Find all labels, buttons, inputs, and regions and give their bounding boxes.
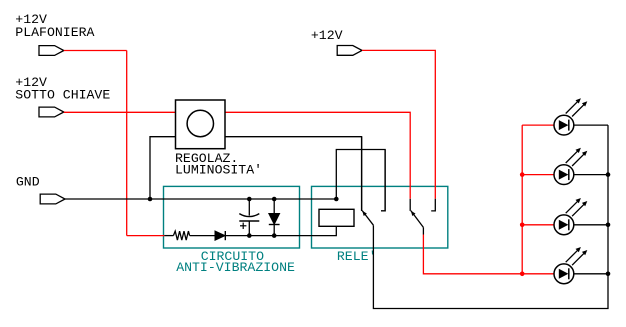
svg-text:+12V: +12V bbox=[311, 28, 343, 43]
junction D2 bottom bbox=[272, 233, 277, 238]
wire pot left lead to GND bbox=[150, 137, 176, 199]
box RELE' bbox=[312, 186, 448, 248]
connector J4 +12V top bbox=[337, 46, 362, 56]
wire LED3 cathode stub bbox=[574, 224, 608, 226]
wire red switch2 output to LED bus bbox=[423, 235, 522, 274]
wire LED4 cathode stub bbox=[574, 273, 608, 275]
capacitor C1 bbox=[239, 199, 259, 236]
potentiometer REGOLAZ. LUMINOSITA' bbox=[176, 100, 226, 149]
diode D1 series bbox=[215, 231, 225, 240]
wire red LED anode bus bbox=[521, 125, 523, 274]
box CIRCUITO ANTI-VIBRAZIONE bbox=[164, 186, 300, 248]
svg-text:LUMINOSITA': LUMINOSITA' bbox=[175, 163, 262, 178]
junction black LED3 bbox=[606, 223, 611, 228]
connector J2 +12V SOTTO CHIAVE bbox=[39, 107, 64, 117]
wire LED2 cathode stub bbox=[574, 174, 608, 176]
junction red LED4 bbox=[520, 272, 525, 277]
wire red pot box to switch2 left bbox=[225, 112, 410, 199]
wire R1 to D1 bbox=[190, 235, 215, 237]
switch S2 bbox=[362, 137, 386, 226]
connector J3 GND bbox=[40, 194, 65, 204]
wire pot right lead to switch1 left bbox=[225, 137, 362, 211]
wire red to anti-vibration input bbox=[127, 235, 165, 237]
LED D6 bbox=[554, 247, 587, 284]
svg-text:GND: GND bbox=[16, 174, 40, 189]
junction black LED2 bbox=[606, 172, 611, 177]
wire red J4 to switch2 right bbox=[362, 50, 435, 198]
wire red J1 to corner bbox=[64, 50, 127, 52]
wire LED1 cathode stub bbox=[574, 124, 608, 126]
relay coil K1 bbox=[319, 209, 354, 226]
junction C1 bottom bbox=[247, 233, 252, 238]
wire diode1 to coil bottom bbox=[226, 226, 336, 235]
LED D3 bbox=[554, 98, 587, 135]
LED D5 bbox=[554, 198, 587, 235]
LED D4 bbox=[554, 148, 587, 185]
junction red LED2 bbox=[520, 172, 525, 177]
diode D2 parallel bbox=[269, 199, 280, 236]
wire switch1 output to LED cathode bus bbox=[373, 125, 608, 308]
resistor R1 bbox=[173, 231, 189, 240]
wire red LED1 stub bbox=[522, 124, 554, 126]
wire GND main bbox=[65, 198, 336, 200]
wire coil top to switch1 right bbox=[336, 150, 385, 211]
svg-text:ANTI-VIBRAZIONE: ANTI-VIBRAZIONE bbox=[176, 260, 295, 275]
wire red LED4 stub bbox=[522, 273, 554, 275]
wire red LED3 stub bbox=[522, 224, 554, 226]
wire anti-vibration lower line bbox=[164, 235, 173, 237]
connector J1 +12V PLAFONIERA bbox=[39, 46, 64, 56]
wire red vertical +12V down bbox=[126, 51, 128, 236]
junction D2 top bbox=[272, 197, 277, 202]
junction C1 top bbox=[247, 197, 252, 202]
switch S1 bbox=[410, 199, 435, 235]
svg-text:SOTTO CHIAVE: SOTTO CHIAVE bbox=[15, 87, 110, 102]
svg-text:PLAFONIERA: PLAFONIERA bbox=[15, 25, 94, 40]
junction pot-GND bbox=[148, 197, 153, 202]
wire red J2 to pot box bbox=[64, 111, 176, 113]
svg-text:RELE': RELE' bbox=[337, 249, 377, 264]
junction coil top bbox=[334, 197, 339, 202]
junction black LED4 bbox=[606, 272, 611, 277]
wire red LED2 stub bbox=[522, 174, 554, 176]
junction red LED3 bbox=[520, 223, 525, 228]
